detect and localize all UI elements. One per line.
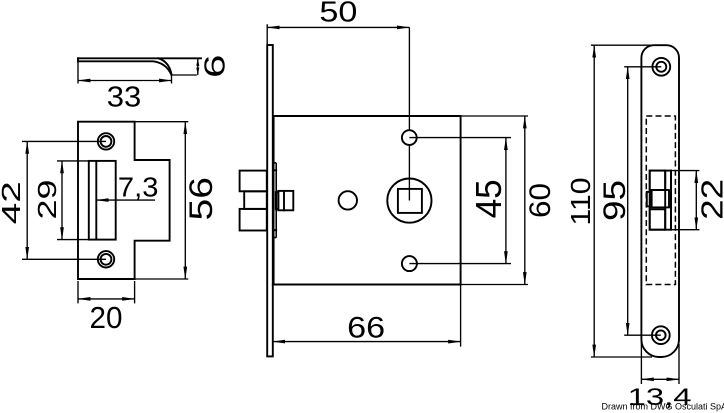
svg-text:50: 50 xyxy=(319,0,357,29)
extension lines for dim 56 xyxy=(135,122,189,279)
latch bolt tail extension line xyxy=(172,74,197,76)
extension lines for dim 110 xyxy=(591,45,654,357)
extension line left for dim 33 xyxy=(77,63,79,84)
faceplate top screw hole outer xyxy=(652,58,670,76)
latch bolt bevel inner line xyxy=(78,61,171,74)
sliver between case edge and latch plate xyxy=(274,164,276,237)
upper case hole xyxy=(402,130,417,145)
extension line for dim 50 left xyxy=(266,24,268,45)
strike plate bottom screw hole inner xyxy=(101,254,112,265)
strike plate bottom screw hole outer xyxy=(98,251,114,267)
dim line 22 xyxy=(695,171,697,230)
latch front box outline xyxy=(650,171,671,230)
extension lines for dim 29 xyxy=(57,161,89,240)
faceplate front view rounded outline xyxy=(641,45,679,357)
svg-text:60: 60 xyxy=(524,183,557,218)
svg-text:7,3: 7,3 xyxy=(118,171,159,202)
latch bolt top block xyxy=(240,171,267,192)
dim line 60 xyxy=(524,116,526,285)
dim line 6 xyxy=(197,58,199,75)
svg-text:20: 20 xyxy=(90,301,123,335)
faceplate bottom screw hole outer xyxy=(652,326,670,344)
latch front left tab xyxy=(647,192,652,207)
dim line 29 xyxy=(61,161,63,240)
extension lines for dim 95 xyxy=(624,67,661,335)
svg-text:45: 45 xyxy=(468,179,509,218)
dim line 33 xyxy=(78,80,172,82)
faceplate bottom screw hole inner xyxy=(656,330,666,340)
faceplate top screw hole inner xyxy=(656,62,666,72)
extension lines for dim 13,4 xyxy=(641,341,679,384)
dim line 45 xyxy=(505,138,507,264)
latch front right strip xyxy=(665,171,671,230)
extension line for dim 66 right xyxy=(460,285,462,347)
dim line 42 xyxy=(26,141,28,259)
dim line 7,3 with single arrow xyxy=(96,199,155,201)
latch bolt side view left edge xyxy=(77,58,79,61)
spindle hole circle xyxy=(387,179,431,223)
lock faceplate side view strip xyxy=(267,45,273,356)
latch bolt bottom block xyxy=(240,209,267,231)
follower box xyxy=(278,191,293,210)
strike plate latch opening xyxy=(89,161,116,240)
dim line 20 xyxy=(78,298,135,300)
dim line 95 xyxy=(627,67,629,335)
lock case outline xyxy=(273,116,461,285)
follower bump xyxy=(276,192,279,209)
extension lines for dim 45 xyxy=(409,138,511,264)
dim line 66 xyxy=(273,341,461,343)
centerline through spindle xyxy=(408,27,410,200)
extension line right for dim 33 xyxy=(171,75,173,84)
dim line 56 xyxy=(184,122,186,279)
svg-text:22: 22 xyxy=(695,179,724,220)
strike plate top screw hole inner xyxy=(101,136,112,147)
svg-text:33: 33 xyxy=(107,82,142,114)
spindle square xyxy=(398,189,422,213)
latch front top block xyxy=(650,171,666,190)
latch bolt outer curve xyxy=(159,58,172,75)
latch front middle block xyxy=(652,190,669,207)
lower case hole xyxy=(402,256,417,271)
follower box divider xyxy=(283,191,285,210)
extension lines for dim 22 xyxy=(671,171,699,230)
strike plate top screw hole outer xyxy=(98,133,114,149)
dim line 110 xyxy=(593,45,595,357)
svg-text:42: 42 xyxy=(0,181,26,224)
svg-text:95: 95 xyxy=(596,180,632,221)
svg-text:66: 66 xyxy=(347,312,385,345)
svg-text:29: 29 xyxy=(32,180,62,220)
latch bolt side view top edge with extension xyxy=(78,57,201,59)
svg-text:110: 110 xyxy=(565,178,596,226)
hidden lock case dashed rect xyxy=(646,116,675,285)
dim line 13,4 xyxy=(641,378,679,380)
small circle in case xyxy=(339,191,357,209)
latch bolt middle block xyxy=(244,191,267,209)
dim line 50 xyxy=(267,26,409,28)
latch unit plate line xyxy=(274,163,277,238)
latch unit notch tick bottom xyxy=(274,229,277,231)
extension lines for dim 20 xyxy=(78,281,135,303)
svg-text:56: 56 xyxy=(183,177,219,221)
svg-text:6: 6 xyxy=(199,55,231,79)
extension lines for dim 42 xyxy=(22,141,106,259)
strike plate outline xyxy=(78,122,170,279)
svg-text:Drawn from DWG Osculati SpA: Drawn from DWG Osculati SpA xyxy=(602,402,724,412)
latch unit notch tick top xyxy=(274,169,277,171)
latch front bottom block xyxy=(650,209,666,229)
extension lines for dim 60 xyxy=(461,116,528,285)
strike plate latch opening inner fold line xyxy=(95,161,97,240)
